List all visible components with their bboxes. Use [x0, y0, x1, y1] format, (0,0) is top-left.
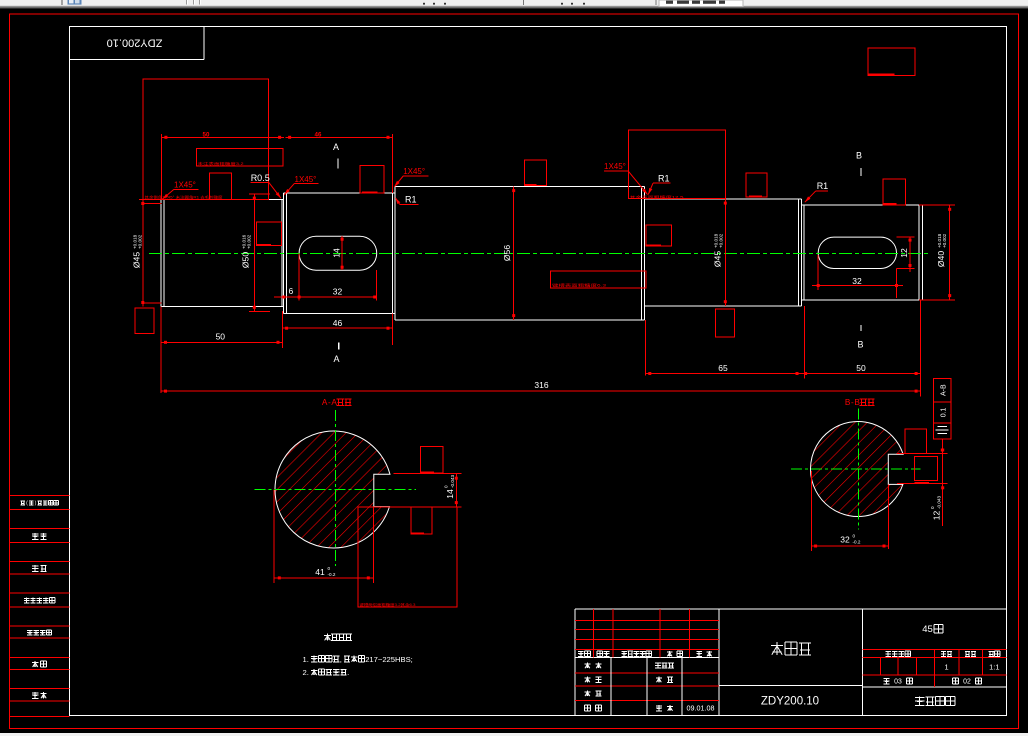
svg-text:其余表面粗糖度12.5: 其余表面粗糖度12.5: [630, 194, 684, 199]
svg-text:R1: R1: [817, 181, 829, 191]
dim phi56 S3: [513, 186, 515, 319]
svg-text:Ø45: Ø45: [713, 251, 723, 267]
status bar sliver bottom: [0, 733, 1028, 736]
svg-text:3: 3: [898, 679, 902, 686]
svg-text:46: 46: [333, 318, 343, 328]
section mark A bottom: [338, 342, 340, 349]
B-B roughness box keyway: [915, 457, 938, 481]
shaft section S2 phi50: [284, 192, 395, 194]
svg-text:Ø40: Ø40: [936, 251, 946, 267]
svg-text:键槽表面粗糖度6.3: 键槽表面粗糖度6.3: [552, 283, 606, 288]
red extension over S1 top edge: [139, 198, 222, 200]
S3/S4 step face: [644, 186, 646, 319]
svg-text:65: 65: [718, 363, 728, 373]
svg-text:A-B: A-B: [940, 384, 947, 396]
title block outline: [575, 608, 1007, 610]
shaft section S1 phi45: [161, 199, 284, 201]
keyway S5 width dim 12: [909, 237, 911, 272]
dim 50 bottom left: [161, 341, 282, 343]
svg-text:0: 0: [853, 533, 856, 538]
roughness box S3/S4 step: [646, 225, 672, 246]
part name low speed shaft: [771, 644, 783, 646]
left margin label 签字: [32, 661, 38, 663]
section B-B hatched circle: [810, 421, 903, 516]
extension lines bottom: [160, 307, 162, 393]
svg-text:32: 32: [840, 534, 850, 544]
svg-text:Ø45: Ø45: [132, 252, 142, 268]
A-A keyway dim 14: [455, 474, 457, 506]
svg-text:ZDY200.10: ZDY200.10: [761, 696, 819, 708]
svg-text:14: 14: [445, 489, 455, 499]
left margin label 旧底图总号: [24, 597, 29, 599]
svg-text:-0.2: -0.2: [853, 540, 861, 545]
svg-text:32: 32: [852, 276, 862, 286]
svg-text:50: 50: [856, 363, 866, 373]
svg-text:09.01.08: 09.01.08: [687, 704, 715, 713]
svg-text:1X45°: 1X45°: [295, 175, 317, 184]
material/scale table red lines: [863, 649, 1007, 651]
red box below S4: [716, 309, 735, 337]
S1 left chamfer line: [163, 200, 165, 307]
A-A roughness box below: [411, 507, 432, 534]
dim phi45 S1: [142, 199, 144, 306]
left margin label 描图: [32, 533, 38, 535]
shaft section S5 phi40: [802, 204, 923, 206]
svg-text:,: ,: [340, 655, 342, 664]
svg-text:B: B: [854, 398, 860, 407]
dim phi50 S2: [253, 194, 255, 312]
big red box above S4: [628, 130, 725, 199]
symmetry frame leader: [941, 439, 943, 453]
svg-text:1.: 1.: [303, 655, 309, 664]
roughness box above S5 keyway: [883, 179, 905, 205]
keyway S2 dims 6 and 32: [274, 296, 377, 298]
long thin red box with note: [196, 149, 283, 166]
svg-text:50: 50: [216, 332, 226, 342]
svg-text:(: (: [26, 501, 28, 507]
roughness box S1/S2 step: [256, 222, 281, 245]
toolbar blue icon: [68, 0, 82, 5]
dim 50 top: [161, 134, 163, 199]
svg-text:-0.2: -0.2: [328, 572, 336, 577]
dim 46 top: [392, 134, 394, 193]
svg-text:0: 0: [444, 485, 449, 488]
svg-text:-0.043: -0.043: [937, 496, 942, 509]
roughness box on S1: [210, 173, 232, 199]
section mark B bottom: [860, 325, 862, 331]
B-B keyway dim 12: [942, 439, 944, 526]
keyway slot S2: [299, 236, 377, 270]
title block mid dividers: [719, 684, 863, 686]
dim 316 overall: [161, 390, 920, 392]
svg-text:217~225HBS;: 217~225HBS;: [365, 655, 413, 664]
svg-text:2: 2: [967, 679, 971, 686]
svg-text:6: 6: [289, 286, 294, 296]
svg-text:R1: R1: [405, 194, 417, 204]
svg-text:其余倒角1X45° 未注圆角R1 去毛刺锄度: 其余倒角1X45° 未注圆角R1 去毛刺锄度: [145, 195, 224, 200]
university name: [915, 697, 924, 699]
section A-A hatched circle: [275, 431, 390, 548]
svg-text:46: 46: [315, 132, 322, 139]
revision box top-left big: [143, 79, 269, 200]
windows toolbar sliver: [0, 0, 1028, 5]
svg-text:2.: 2.: [303, 668, 309, 677]
roughness box above S4: [746, 173, 767, 197]
svg-text:1X45°: 1X45°: [604, 162, 626, 171]
shaft section S3 phi56: [395, 185, 645, 187]
A-A centerlines: [255, 489, 416, 491]
left margin label 日期: [32, 692, 38, 694]
left margin block grid: [9, 495, 69, 497]
shaft section S4 phi45: [645, 198, 802, 200]
svg-text:+0.002: +0.002: [138, 234, 143, 249]
svg-text:1X45°: 1X45°: [403, 167, 425, 176]
svg-text:0: 0: [930, 506, 935, 509]
svg-text:B: B: [845, 398, 851, 407]
svg-text:0.1: 0.1: [940, 407, 947, 417]
S4/S5 step face: [801, 199, 803, 306]
symmetry tolerance frame: [934, 378, 951, 439]
svg-text:1: 1: [944, 662, 948, 671]
S2 left chamfer line: [285, 193, 287, 313]
red box below S1: [135, 308, 154, 333]
svg-text:+0.002: +0.002: [942, 233, 947, 248]
A-A dim 41: [273, 490, 275, 583]
svg-text:+0.002: +0.002: [719, 233, 724, 248]
left margin label 借(通)用件登记: [21, 500, 26, 502]
toolbar dropdown: [659, 0, 743, 6]
S5 end face: [922, 205, 924, 300]
S3 right chamfer line: [641, 186, 643, 319]
toolbar separator: [61, 0, 63, 5]
svg-text:1:1: 1:1: [989, 662, 999, 671]
svg-text:+0.002: +0.002: [247, 234, 252, 249]
svg-text:A: A: [322, 398, 328, 407]
main centerline: [149, 252, 929, 254]
svg-text:A: A: [331, 398, 337, 407]
svg-text:ZDY200.10: ZDY200.10: [107, 37, 163, 49]
symmetry symbol: [938, 426, 948, 428]
S5 end chamfer line: [918, 205, 920, 300]
long red box on S3: [551, 271, 647, 288]
svg-text:14: 14: [332, 248, 342, 258]
signature table lines: [575, 672, 719, 674]
left margin label 底图总号: [27, 629, 32, 631]
roughness box top right corner: [868, 48, 915, 76]
roughness box above S2: [360, 166, 384, 193]
svg-text:Ø56: Ø56: [502, 245, 512, 261]
svg-text:Ø50: Ø50: [241, 252, 251, 268]
svg-text:316: 316: [534, 380, 548, 390]
svg-text:12: 12: [932, 511, 942, 521]
keyway S5 length dim 32: [812, 285, 903, 287]
B-B dim 32: [810, 471, 812, 551]
keyway slot S5: [818, 237, 896, 268]
svg-text:.: .: [347, 668, 349, 677]
svg-text:32: 32: [333, 287, 343, 297]
dim phi45 S4: [724, 199, 726, 306]
svg-text:未注表面粗糖度3.2: 未注表面粗糖度3.2: [198, 161, 244, 166]
svg-text:0: 0: [328, 566, 331, 571]
S5 left chamfer line: [803, 205, 805, 300]
S2 right chamfer line: [392, 193, 394, 313]
svg-text:1X45°: 1X45°: [174, 181, 196, 190]
A-A big red note box: [358, 507, 457, 607]
A-A roughness box above: [420, 446, 442, 473]
svg-text:B: B: [856, 150, 862, 160]
toolbar text descenders: [423, 3, 425, 5]
scale table headers: [885, 651, 890, 653]
keyway S2 width dim 14: [341, 236, 343, 270]
svg-text:A: A: [333, 354, 339, 364]
svg-text:-0.043: -0.043: [450, 475, 455, 488]
svg-text:R1: R1: [658, 173, 670, 183]
revision header labels: [578, 651, 584, 653]
signature labels: [585, 663, 591, 665]
dim 65: [646, 373, 802, 375]
svg-text:B: B: [857, 340, 863, 350]
revision table red lines: [575, 619, 719, 621]
svg-text:45: 45: [922, 624, 933, 635]
B-B roughness box above: [905, 429, 927, 453]
svg-text:50: 50: [203, 132, 210, 139]
toolbar grips: [186, 0, 188, 5]
toolbar separators 2: [523, 0, 525, 5]
dim 50 bottom right: [801, 373, 920, 375]
technical notes title: [324, 634, 331, 636]
svg-text:A: A: [333, 142, 339, 152]
left margin label 描校: [32, 565, 38, 567]
svg-text:41: 41: [315, 567, 325, 577]
S1 right chamfer line: [281, 200, 283, 307]
sheet counts: [884, 678, 890, 680]
dim phi40 S5: [949, 205, 951, 300]
B-B centerlines: [791, 468, 921, 470]
S4 right chamfer line: [798, 199, 800, 306]
svg-text:): ): [35, 501, 37, 507]
svg-text:12: 12: [899, 248, 909, 258]
svg-text:键槽两侣面粗糖度3.2其余6.3: 键槽两侣面粗糖度3.2其余6.3: [360, 602, 416, 607]
svg-text:R0.5: R0.5: [251, 173, 270, 183]
roughness box above S3: [525, 160, 547, 186]
ZDY200.10 corner box: [203, 26, 205, 59]
dim 46 bottom: [282, 327, 392, 329]
